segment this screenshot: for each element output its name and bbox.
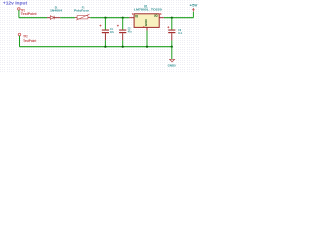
capacitor C1 — [100, 18, 110, 47]
wire C3 top lead — [171, 18, 173, 30]
C3 bottom pin — [171, 33, 173, 40]
junction bottom C2 — [122, 46, 124, 48]
pin 2 stub GND — [146, 27, 148, 30]
U1 body — [134, 14, 159, 28]
ground symbol — [170, 59, 175, 62]
C1 plus mark — [100, 25, 102, 27]
svg-text:TP2: TP2 — [23, 34, 27, 38]
capacitor C2 — [117, 18, 126, 47]
fuse through line — [75, 17, 90, 19]
junction bottom C1 — [104, 46, 106, 48]
wire F1 to U1 — [90, 17, 129, 19]
svg-text:47u: 47u — [128, 30, 132, 34]
svg-text:47u: 47u — [110, 30, 114, 34]
junction top C2 — [122, 17, 124, 19]
svg-text:3: 3 — [160, 12, 162, 16]
junction bottom U1 GND — [146, 46, 148, 48]
pin 1 stub VI — [129, 17, 134, 19]
fuse F1 — [75, 14, 90, 20]
pin 3 stub VO — [159, 17, 164, 19]
fuse diagonal — [76, 14, 89, 20]
wire top rail TP1 to D1 — [19, 17, 47, 19]
junction bottom C3 — [171, 46, 173, 48]
wire +5V riser — [192, 12, 194, 18]
svg-text:0.1: 0.1 — [178, 31, 182, 35]
C2 plus mark — [117, 25, 119, 27]
svg-text:1N4004: 1N4004 — [50, 9, 62, 13]
wire U1 output to +5V elbow — [164, 17, 194, 19]
C3 plus mark — [167, 26, 169, 28]
C2 bottom pin — [122, 33, 124, 40]
wire D1 to F1 — [60, 17, 75, 19]
svg-text:TestPoint: TestPoint — [21, 12, 38, 16]
fuse body rect — [77, 16, 88, 19]
wire C3 to rail — [171, 40, 173, 46]
svg-text:+12v Input: +12v Input — [3, 1, 28, 6]
svg-text:PolyFuse: PolyFuse — [74, 9, 89, 13]
svg-text:LM7805L_TO220: LM7805L_TO220 — [134, 8, 162, 12]
voltage regulator U1 — [129, 12, 164, 31]
junction top C3 — [171, 17, 173, 19]
wire bottom rail — [20, 46, 172, 48]
C2 top plate — [119, 30, 126, 31]
supply symbol +5V arrow — [192, 8, 194, 12]
pin lead anode — [47, 17, 50, 19]
C3 top plate — [168, 30, 175, 31]
testpoint TP1 — [18, 8, 21, 11]
wire TP2 drop — [19, 36, 21, 47]
wire ground drop — [171, 47, 173, 59]
C2 bottom plate — [119, 32, 126, 33]
svg-text:+5V: +5V — [190, 3, 198, 8]
wire C1 to rail — [104, 40, 106, 46]
svg-text:1: 1 — [132, 12, 134, 16]
svg-text:VI: VI — [135, 14, 138, 18]
capacitor C3 — [167, 18, 175, 47]
svg-text:GND: GND — [144, 18, 148, 26]
svg-text:GND5: GND5 — [168, 64, 176, 68]
diode D1 — [47, 16, 60, 20]
C1 top plate — [102, 30, 109, 31]
wire C2 to rail — [122, 40, 124, 46]
C1 bottom pin — [104, 33, 106, 40]
C1 bottom plate — [102, 32, 109, 33]
C3 bottom plate — [168, 32, 175, 33]
wire U1 GND to rail — [146, 31, 148, 47]
svg-text:TestPoint: TestPoint — [23, 39, 37, 43]
diode cathode bar — [53, 16, 55, 20]
testpoint TP2 — [18, 33, 21, 36]
pin lead cathode — [54, 17, 60, 19]
wire TP1 drop — [18, 10, 20, 18]
junction top C1 — [104, 17, 106, 19]
wire C1 top lead — [104, 18, 106, 30]
diode triangle — [50, 16, 54, 20]
svg-text:VO: VO — [154, 14, 158, 18]
wire C2 top lead — [122, 18, 124, 30]
